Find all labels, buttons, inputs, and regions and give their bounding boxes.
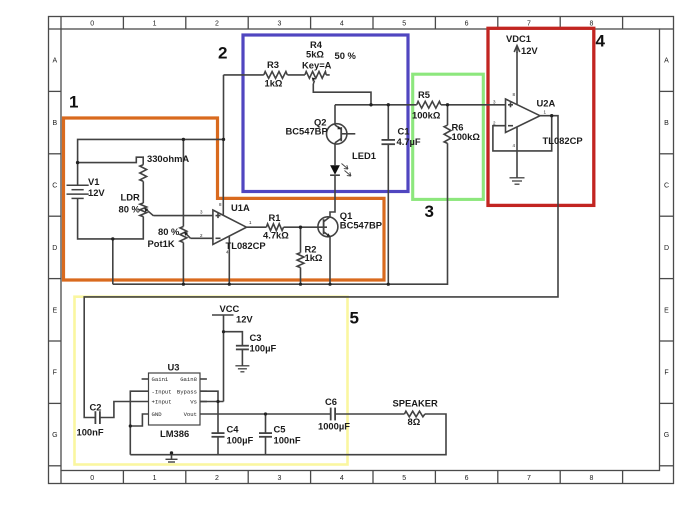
svg-text:F: F	[53, 370, 57, 377]
svg-text:1kΩ: 1kΩ	[305, 252, 323, 263]
svg-text:BC547BP: BC547BP	[340, 220, 382, 231]
svg-text:Vs: Vs	[190, 399, 197, 406]
svg-text:E: E	[52, 307, 57, 314]
svg-text:3: 3	[277, 21, 281, 28]
svg-text:LDR: LDR	[121, 192, 140, 203]
svg-text:A: A	[664, 58, 669, 65]
svg-text:1000µF: 1000µF	[318, 421, 350, 432]
svg-text:Gain8: Gain8	[180, 376, 197, 383]
svg-text:E: E	[664, 307, 669, 314]
svg-text:B: B	[52, 120, 57, 127]
svg-text:+Input: +Input	[152, 399, 172, 406]
svg-text:D: D	[52, 245, 57, 252]
svg-text:B: B	[664, 120, 669, 127]
svg-text:12V: 12V	[521, 45, 538, 56]
svg-text:4.7µF: 4.7µF	[397, 136, 421, 147]
svg-text:80 %: 80 %	[158, 226, 180, 237]
svg-text:6: 6	[465, 21, 469, 28]
svg-text:330ohmA: 330ohmA	[147, 153, 189, 164]
svg-text:12V: 12V	[88, 187, 105, 198]
svg-text:100nF: 100nF	[274, 435, 301, 446]
svg-text:VCC: VCC	[220, 303, 240, 314]
svg-text:6: 6	[465, 475, 469, 482]
svg-text:LED1: LED1	[352, 150, 376, 161]
svg-text:8: 8	[589, 475, 593, 482]
svg-text:F: F	[664, 370, 668, 377]
svg-text:1kΩ: 1kΩ	[265, 78, 283, 89]
svg-text:-Input: -Input	[152, 388, 172, 395]
svg-text:Gain1: Gain1	[152, 376, 169, 383]
svg-text:U3: U3	[168, 362, 180, 373]
svg-text:VDC1: VDC1	[506, 33, 531, 44]
svg-text:5: 5	[402, 475, 406, 482]
svg-text:U2A: U2A	[537, 98, 556, 109]
svg-text:C2: C2	[90, 402, 102, 413]
svg-text:C3: C3	[250, 332, 262, 343]
svg-text:4.7kΩ: 4.7kΩ	[263, 230, 289, 241]
svg-text:8: 8	[589, 21, 593, 28]
svg-text:BC547BP: BC547BP	[286, 126, 328, 137]
svg-text:Key=A: Key=A	[302, 60, 332, 71]
svg-text:8Ω: 8Ω	[408, 416, 421, 427]
svg-text:G: G	[52, 432, 57, 439]
svg-text:7: 7	[527, 475, 531, 482]
svg-text:5: 5	[350, 309, 359, 328]
svg-text:G: G	[664, 432, 669, 439]
svg-text:C6: C6	[325, 396, 337, 407]
svg-text:R3: R3	[267, 59, 279, 70]
svg-text:R1: R1	[269, 212, 281, 223]
svg-text:0: 0	[90, 475, 94, 482]
svg-text:5kΩ: 5kΩ	[306, 49, 324, 60]
svg-text:7: 7	[527, 21, 531, 28]
svg-text:100kΩ: 100kΩ	[412, 110, 441, 121]
svg-text:V1: V1	[88, 176, 99, 187]
svg-text:GND: GND	[152, 411, 163, 418]
svg-text:C5: C5	[274, 424, 286, 435]
svg-text:Vout: Vout	[184, 411, 197, 418]
svg-text:C: C	[664, 183, 669, 190]
svg-text:4: 4	[340, 475, 344, 482]
svg-text:4: 4	[340, 21, 344, 28]
svg-text:100µF: 100µF	[227, 435, 254, 446]
svg-text:C: C	[52, 183, 57, 190]
svg-text:80 %: 80 %	[119, 204, 141, 215]
svg-text:Pot1K: Pot1K	[148, 238, 175, 249]
svg-text:50 %: 50 %	[335, 50, 357, 61]
svg-text:3: 3	[425, 202, 434, 221]
svg-text:C4: C4	[227, 424, 240, 435]
svg-text:Bypass: Bypass	[177, 388, 197, 395]
svg-text:SPEAKER: SPEAKER	[393, 398, 439, 409]
svg-text:1: 1	[153, 475, 157, 482]
svg-text:3: 3	[277, 475, 281, 482]
svg-text:2: 2	[215, 475, 219, 482]
svg-text:R5: R5	[418, 89, 430, 100]
svg-text:100µF: 100µF	[250, 343, 277, 354]
svg-text:TL082CP: TL082CP	[226, 240, 266, 251]
svg-text:TL082CP: TL082CP	[543, 135, 583, 146]
svg-text:5: 5	[402, 21, 406, 28]
svg-text:2: 2	[215, 21, 219, 28]
svg-text:A: A	[52, 58, 57, 65]
svg-text:D: D	[664, 245, 669, 252]
svg-text:12V: 12V	[236, 314, 253, 325]
svg-text:0: 0	[90, 21, 94, 28]
svg-text:100kΩ: 100kΩ	[452, 131, 481, 142]
svg-text:4: 4	[596, 32, 606, 51]
svg-text:C1: C1	[398, 126, 410, 137]
svg-text:2: 2	[218, 44, 227, 63]
svg-text:100nF: 100nF	[77, 427, 104, 438]
svg-text:U1A: U1A	[231, 202, 250, 213]
svg-text:LM386: LM386	[160, 428, 189, 439]
svg-text:1: 1	[153, 21, 157, 28]
svg-text:1: 1	[69, 93, 78, 112]
